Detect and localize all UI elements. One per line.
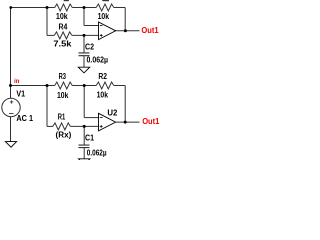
resistor R2 (bottom feedback, 10k) bbox=[96, 82, 114, 89]
cut-off label above R6 bbox=[102, 0, 109, 1]
wire node B vertical bbox=[83, 8, 85, 26]
junction R1/C1 bbox=[83, 125, 86, 128]
svg-text:U2: U2 bbox=[107, 108, 118, 117]
wire bottom feedback vertical bbox=[124, 86, 126, 123]
svg-text:(Rx): (Rx) bbox=[56, 130, 72, 139]
capacitor C1 plates bbox=[79, 145, 90, 148]
junction node B bbox=[83, 6, 86, 9]
wire R1 rail right to U2 + input bbox=[70, 125, 98, 127]
wire C1 tap bbox=[83, 126, 85, 145]
junction top output bbox=[124, 29, 127, 32]
junction bottom output bbox=[124, 121, 127, 124]
svg-text:0.062µ: 0.062µ bbox=[87, 56, 109, 65]
wire bottom rail segment 1 bbox=[11, 85, 55, 87]
junction top-left corner bbox=[9, 6, 12, 9]
cut-off label above R5 bbox=[64, 0, 69, 1]
ground under C1 (clipped at bottom edge) bbox=[79, 159, 90, 165]
svg-text:0.062µ: 0.062µ bbox=[87, 148, 107, 157]
junction in node bbox=[9, 84, 12, 87]
wire top rail segment 1 bbox=[11, 7, 55, 9]
junction R4/C2 bbox=[83, 34, 86, 37]
resistor R1 (Rx) bbox=[53, 123, 71, 130]
wire node D vertical bbox=[83, 86, 85, 118]
wire bottom rail segment 3 bbox=[114, 85, 125, 87]
svg-text:Out1: Out1 bbox=[141, 26, 159, 35]
wire bottom rail segment 2 bbox=[72, 85, 96, 87]
wire C2 to ground bbox=[83, 56, 85, 67]
wire C1 to ground bbox=[83, 148, 85, 159]
junction node C bbox=[46, 84, 49, 87]
svg-text:10k: 10k bbox=[57, 91, 69, 100]
resistor R5 (top left, 10k) bbox=[55, 4, 73, 11]
junction node D bbox=[83, 84, 86, 87]
wire top output rail bbox=[116, 30, 140, 32]
wire top rail segment 2 bbox=[72, 7, 96, 9]
svg-text:10k: 10k bbox=[97, 91, 109, 100]
wire top rail segment 3 bbox=[114, 7, 125, 9]
op-amp U2 (bottom) bbox=[99, 113, 116, 131]
junction node A bbox=[46, 6, 49, 9]
wire R4 rail left bbox=[47, 34, 54, 36]
wire V1 bottom to ground bbox=[10, 116, 12, 141]
wire top feedback vertical bbox=[124, 8, 126, 31]
svg-text:in: in bbox=[14, 78, 19, 85]
U1 plus mark bbox=[100, 34, 103, 37]
resistor R3 (10k) bbox=[55, 82, 73, 89]
U2 minus mark bbox=[100, 117, 103, 119]
svg-text:10k: 10k bbox=[56, 12, 68, 21]
svg-text:R1: R1 bbox=[58, 112, 66, 121]
wire node B jog to op-amp - input bbox=[84, 25, 99, 27]
svg-text:V1: V1 bbox=[16, 90, 25, 99]
capacitor C2 plates bbox=[79, 53, 90, 56]
svg-text:10k: 10k bbox=[98, 12, 110, 21]
svg-text:C2: C2 bbox=[85, 42, 95, 51]
svg-text:C1: C1 bbox=[85, 133, 95, 142]
wire R4 rail right to op-amp + input bbox=[72, 34, 99, 36]
wire node A vertical bbox=[46, 8, 48, 36]
svg-text:AC 1: AC 1 bbox=[16, 114, 33, 123]
wire left vertical from top rail to V1 top bbox=[10, 8, 12, 99]
V1 minus mark bbox=[9, 113, 14, 115]
wire node C vertical bbox=[46, 86, 48, 127]
svg-text:R2: R2 bbox=[98, 72, 107, 81]
wire C2 tap bbox=[83, 35, 85, 53]
ground under V1 bbox=[5, 142, 16, 148]
svg-text:R3: R3 bbox=[59, 72, 67, 81]
U2 plus mark bbox=[100, 125, 103, 128]
svg-text:Out1: Out1 bbox=[142, 117, 160, 126]
svg-text:7.5k: 7.5k bbox=[53, 39, 72, 48]
resistor R6 (top feedback, 10k) bbox=[96, 4, 114, 11]
wire R1 rail left bbox=[47, 125, 53, 127]
voltage source V1 circle bbox=[2, 98, 20, 116]
resistor R4 (7.5k) bbox=[54, 32, 72, 39]
ground under C2 bbox=[78, 67, 89, 73]
U1 minus mark bbox=[100, 25, 103, 27]
V1 plus mark bbox=[10, 100, 13, 103]
svg-text:R4: R4 bbox=[59, 22, 68, 31]
wire node D jog to U2 - input bbox=[84, 117, 98, 119]
op-amp U1 (top) bbox=[99, 22, 116, 40]
wire bottom output rail bbox=[116, 121, 140, 123]
